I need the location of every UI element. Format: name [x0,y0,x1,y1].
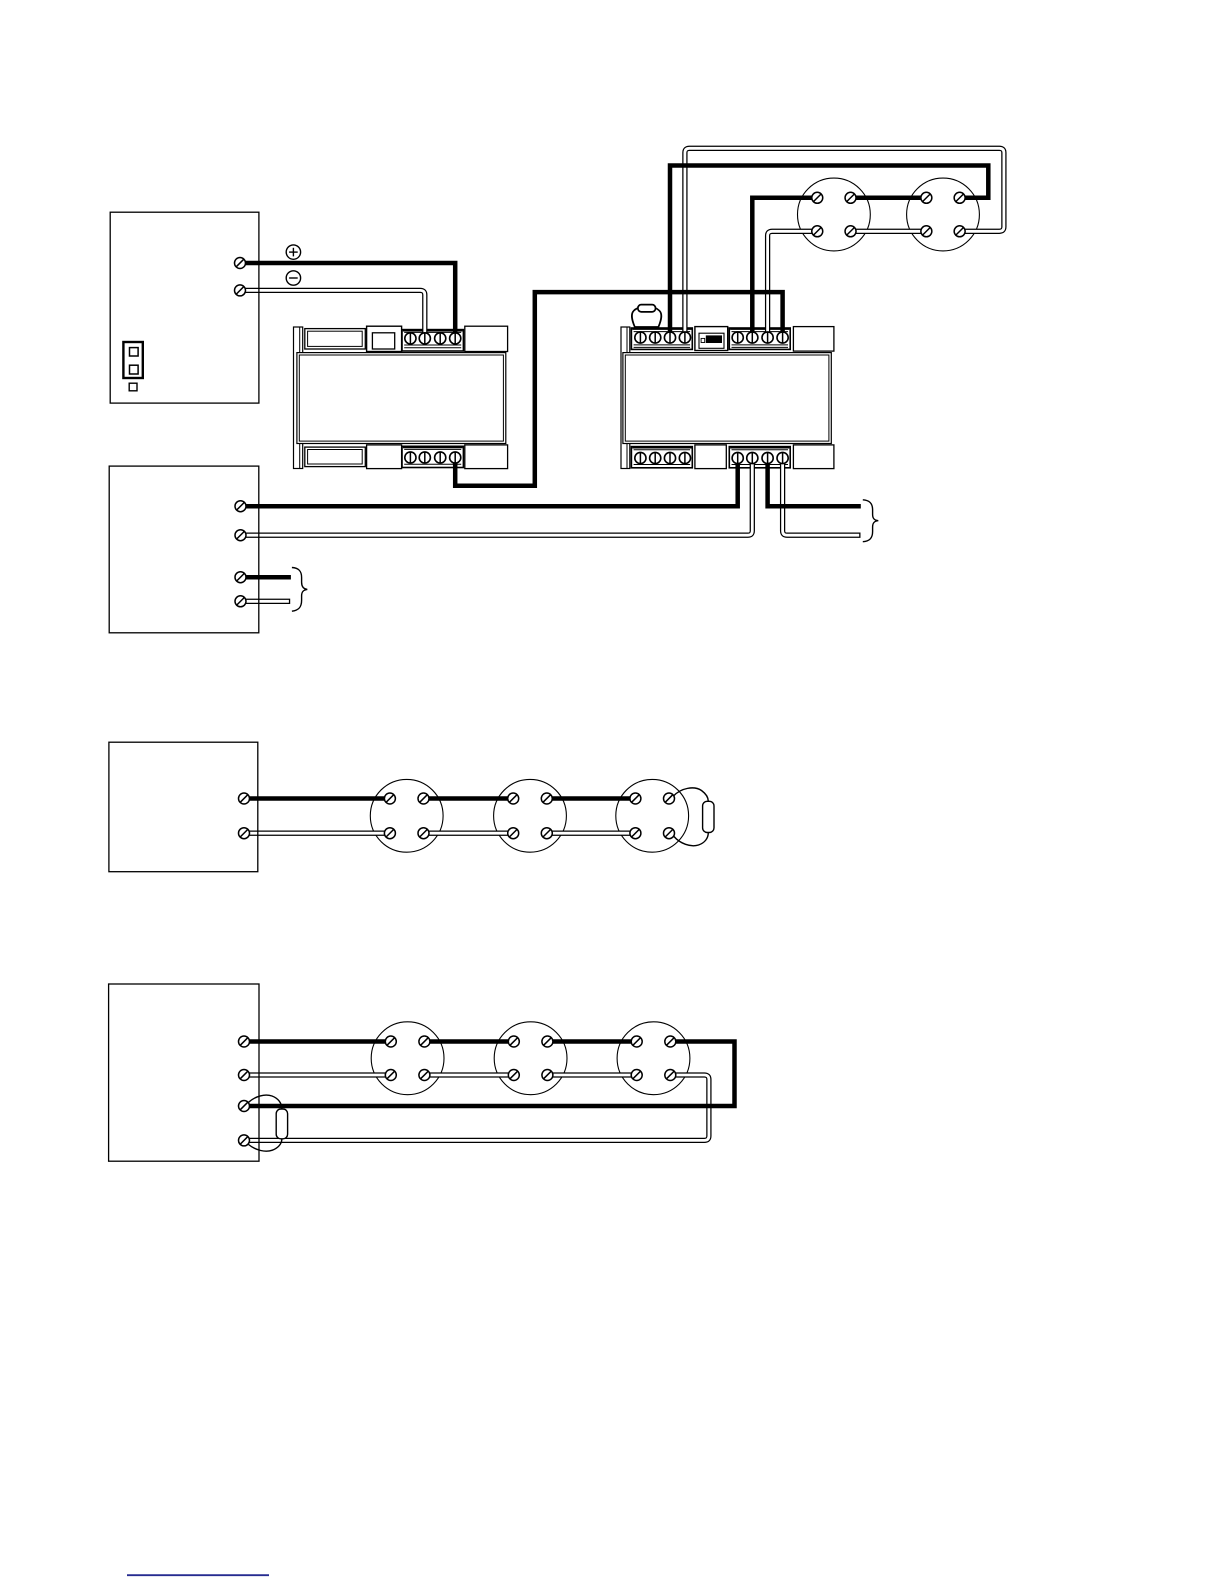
module M2 bottom right blank section [793,445,834,469]
speaker LS1 body [798,178,871,251]
wire amp A minus to LS3 SW [244,831,390,836]
wire LS4 SE to LS5 SW [547,831,636,836]
amplifier box B [109,984,259,1161]
module M2 bottom-right terminals 1-4 [732,452,788,463]
wire LS7 NE to LS8 NW [547,1039,636,1044]
module M1 top terminal block [402,330,463,351]
wire M2 bottom-right terminal 1 to controller terminal 1 [241,458,738,506]
wire core M2 to LS1 SW [768,231,818,337]
plus symbol at PSU output [286,245,300,259]
wire M2 top-right terminal 2 to LS1 NW [752,198,817,338]
power supply box PSU [110,212,259,403]
wire amp A plus to LS3 NW [244,796,390,801]
speaker LS2 terminals [921,192,965,237]
module M2 display [695,327,728,351]
wire core amp B minus [244,1074,391,1077]
end-of-line resistor R1 jumper arcs at LS5 [674,788,709,846]
brace (controller aux outputs) [292,568,307,612]
amp B terminal 3 [239,1101,250,1112]
wire core M2 to controller terminal 2 [241,458,753,535]
speaker LS2 body [907,178,980,251]
wire core LS8 return [244,1075,709,1140]
wire core controller terminal 4 stub [241,600,289,603]
wire controller terminal 4 stub [241,599,291,604]
footer rule [127,1574,269,1576]
module M1 button [367,326,402,351]
speaker LS7 body [494,1022,567,1095]
speaker LS4 terminals [508,793,553,839]
module M2 body [623,353,831,444]
wire LS1 SE to LS2 SW [851,229,927,234]
module M2 top left terminal block [631,328,692,349]
wire amp B plus to LS6 NW [244,1039,391,1044]
controller terminal 1 [235,501,246,512]
controller box (zone source) [109,466,259,633]
wire core M2 to LS2 SE [685,148,1004,337]
wire LS3 SE to LS4 SW [424,831,514,836]
module M2 top-right terminals 1-4 [732,332,788,343]
wire LS1 NE to LS2 NW [851,196,927,201]
thick black wires [240,166,988,1107]
wire core PSU minus [240,290,425,338]
module M1 bottom terminals 1-4 [405,452,461,463]
amp A terminal 1 [239,793,250,804]
speaker LS8 body [617,1022,690,1095]
wire M2 bottom-right terminal 2 to controller terminal 2 [241,458,753,535]
end-of-line resistor R2 jumper arcs at amp B [249,1095,282,1151]
wire LS6 SE to LS7 SW [424,1072,513,1077]
module M2 bottom left terminal block [631,447,692,468]
PSU internal connector J1 [123,342,142,391]
wire M2 bottom-right terminal 4 to further zones [783,458,861,535]
module M1 top terminals 1-4 [405,333,461,344]
speaker LS6 terminals [385,1036,430,1081]
module M2 bottom-left terminals 1-4 [635,452,691,463]
amp A terminal 2 [239,828,250,839]
speaker LS5 terminals [630,793,675,839]
module M1 label window top [305,329,366,349]
wire core LS4-LS5 [547,832,636,835]
wire M1 bottom terminal 4 to M2 top-right terminal 4 [455,292,782,486]
wire LS4 NE to LS5 NW [547,796,636,801]
speaker LS3 body [370,779,443,852]
module M1 bottom right blank section [465,445,508,469]
wire core LS6-LS7 [424,1074,513,1077]
wire M2 top-right terminal 3 to LS1 SW [768,231,818,337]
wire PSU minus to M1 top terminal 2 [240,290,425,338]
module M2 bottom right terminal block [729,447,790,468]
speaker LS5 body [616,779,689,852]
speaker LS3 terminals [384,793,429,839]
module M2 cable gland [632,305,662,327]
controller terminal 3 [235,572,246,583]
wire M2 top-left terminal 3 to LS2 NE (feed loop) [670,166,988,338]
amplifier box A [109,742,258,872]
wire LS6 NE to LS7 NW [424,1039,513,1044]
module M2 DIN rail clip [621,327,630,469]
speaker LS4 body [494,779,567,852]
module M1 bottom terminal block [402,446,463,467]
module M2 top right terminal block [729,328,790,349]
module M1 body [297,353,506,444]
wire core amp A minus [244,832,390,835]
module M1 bottom label window [305,447,366,467]
white-wire cores (white) [240,148,1004,1140]
end-of-line resistor R1 [703,801,714,832]
speaker LS1 terminals [812,192,856,237]
amp B terminal 1 [239,1036,250,1047]
PSU terminal 1 [235,258,246,269]
controller terminal 4 [235,596,246,607]
speaker LS6 body [371,1022,444,1095]
wire controller terminal 3 stub [241,575,291,580]
wire M2 top-left terminal 4 to LS2 SE (return loop) [685,148,1004,337]
module M1 top right blank section [465,326,508,351]
wire LS8 NE return to amp B terminal 3 [244,1042,735,1107]
wire LS8 SE return to amp B terminal 4 [244,1075,709,1140]
wire core LS3-LS4 [424,832,514,835]
box border restrokes (borders pass over white wires) [109,212,259,1161]
controller terminal 2 [235,530,246,541]
minus symbol at PSU output [286,271,300,285]
wire core LS7-LS8 [547,1074,636,1077]
module M1 DIN rail clip [294,327,303,469]
white-wire underlays (black) [240,148,1004,1140]
amp B terminal 2 [239,1070,250,1081]
wire core LS1 SE to LS2 SW [851,230,927,233]
wire M2 bottom-right terminal 3 to further zones [768,458,861,506]
module M1 bottom middle section [367,445,402,469]
wire amp B minus to LS6 SW [244,1072,391,1077]
wire core M2 terminal 4 to further zones [783,458,860,535]
speaker LS8 terminals [631,1036,676,1081]
module M2 top-left terminals 1-4 [635,332,691,343]
brace (to further zones) [863,500,879,542]
wire PSU plus to M1 top terminal 4 [240,263,455,338]
speaker LS7 terminals [508,1036,553,1081]
wire LS3 NE to LS4 NW [424,796,514,801]
PSU terminal 2 [235,285,246,296]
module M2 top right blank section [793,327,834,352]
amp B terminal 4 [239,1135,250,1146]
module M2 bottom middle section [695,445,726,469]
end-of-line resistor R2 [276,1109,287,1139]
wire LS7 SE to LS8 SW [547,1072,636,1077]
